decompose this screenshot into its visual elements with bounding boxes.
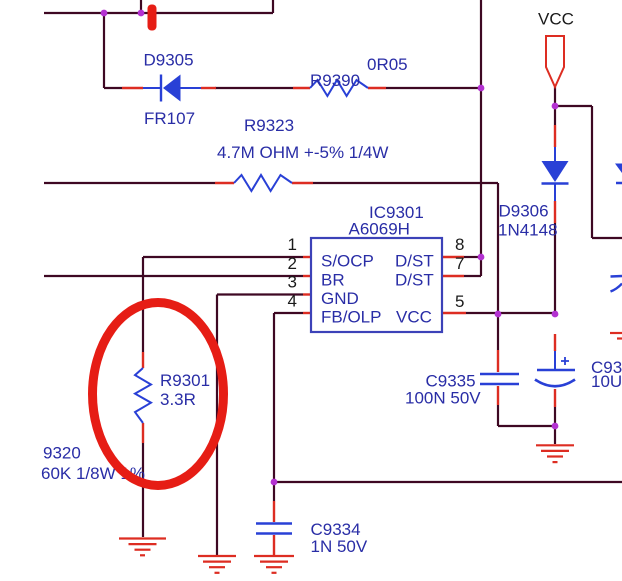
svg-text:4: 4 [288, 292, 297, 311]
svg-text:D/ST: D/ST [395, 271, 434, 290]
svg-text:4.7M OHM +-5% 1/4W: 4.7M OHM +-5% 1/4W [217, 143, 388, 162]
svg-text:9320: 9320 [43, 444, 81, 463]
svg-text:0R05: 0R05 [367, 55, 408, 74]
svg-text:D9305: D9305 [144, 51, 194, 70]
svg-text:VCC: VCC [538, 10, 574, 29]
svg-text:FB/OLP: FB/OLP [321, 308, 381, 327]
svg-text:S/OCP: S/OCP [321, 252, 374, 271]
svg-text:R9301: R9301 [160, 371, 210, 390]
svg-text:FR107: FR107 [144, 109, 195, 128]
svg-text:1: 1 [288, 235, 297, 254]
svg-text:1N4148: 1N4148 [498, 220, 558, 239]
svg-text:VCC: VCC [396, 308, 432, 327]
svg-text:A6069H: A6069H [349, 220, 410, 239]
svg-text:3.3R: 3.3R [160, 390, 196, 409]
svg-text:8: 8 [455, 235, 464, 254]
svg-text:GND: GND [321, 289, 359, 308]
svg-text:7: 7 [455, 254, 464, 273]
svg-text:D/ST: D/ST [395, 252, 434, 271]
svg-text:BR: BR [321, 271, 345, 290]
svg-text:3: 3 [288, 273, 297, 292]
svg-text:R9390: R9390 [310, 71, 360, 90]
svg-text:1N 50V: 1N 50V [311, 537, 368, 556]
svg-text:10UF: 10UF [591, 372, 622, 391]
svg-text:R9323: R9323 [244, 116, 294, 135]
svg-text:2: 2 [288, 254, 297, 273]
svg-text:5: 5 [455, 292, 464, 311]
svg-text:100N 50V: 100N 50V [405, 389, 481, 408]
svg-text:D9306: D9306 [499, 202, 549, 221]
